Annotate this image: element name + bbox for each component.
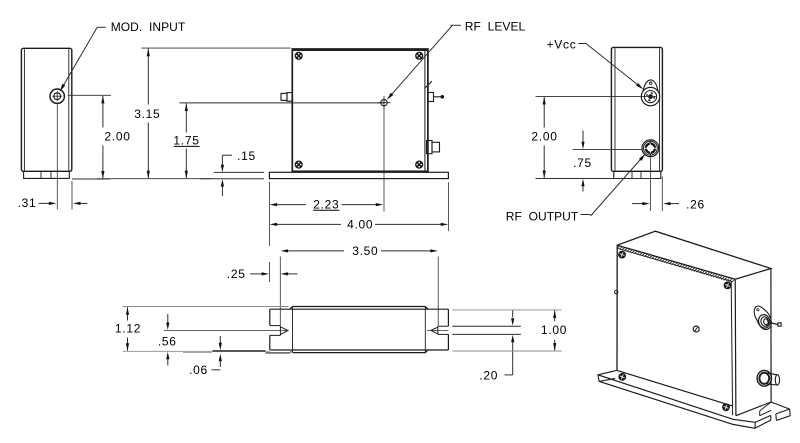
MOD. INPUT connector circle — [50, 89, 64, 103]
svg-text:.31: .31 — [18, 196, 37, 210]
svg-text:.20: .20 — [479, 369, 498, 383]
side view base foot — [614, 172, 661, 179]
bottom view base plate outline — [270, 309, 449, 350]
screw top-left front view — [295, 52, 302, 59]
MOD INPUT connector stub left of front view — [281, 93, 292, 102]
dimension .20 — [479, 310, 514, 383]
RF LEVEL leader — [387, 25, 461, 100]
svg-text:RF OUTPUT: RF OUTPUT — [506, 209, 579, 223]
isometric center hole — [693, 326, 699, 332]
dimension 1.00 extension lines — [452, 310, 561, 351]
svg-text:4.00: 4.00 — [347, 218, 373, 232]
Vcc feedthrough stub right of front view — [425, 81, 444, 101]
svg-text:1.00: 1.00 — [541, 323, 567, 337]
pot extension line down — [383, 109, 385, 211]
svg-text:.25: .25 — [227, 267, 246, 281]
left side view body — [21, 48, 71, 171]
screw bottom-left front view — [295, 161, 302, 168]
dimension 2.00 left view — [68, 95, 131, 179]
dimension .31 — [18, 196, 88, 210]
svg-text:.56: .56 — [158, 334, 177, 348]
RF output connector stub right of front view — [427, 141, 440, 154]
svg-text:.06: .06 — [189, 363, 208, 377]
dimension .56 — [158, 314, 177, 366]
isometric base plate — [598, 370, 755, 428]
svg-text:2.23: 2.23 — [313, 197, 339, 211]
svg-text:1.75: 1.75 — [173, 133, 199, 147]
RF OUTPUT connector side view — [642, 140, 659, 157]
dimension 1.75 underlined — [173, 103, 384, 178]
extension line right edge left view — [71, 181, 73, 210]
dimension .26 — [632, 198, 705, 212]
dimension 2.23 underlined — [270, 197, 384, 211]
+Vcc label — [547, 37, 577, 51]
isometric right face and edges — [617, 269, 771, 416]
dimension 2.00 side view — [531, 97, 557, 178]
left view base foot — [24, 171, 70, 178]
screw bottom-right front view — [416, 161, 423, 168]
+Vcc leader — [579, 44, 644, 90]
centerline below MOD INPUT connector — [56, 104, 58, 210]
isometric base plate right tab with notch — [755, 402, 790, 428]
dimension 3.50 — [281, 244, 438, 258]
dimension 3.15 — [97, 48, 291, 179]
isometric +Vcc connector — [754, 306, 781, 330]
left mounting slot — [164, 326, 289, 336]
svg-text:3.15: 3.15 — [134, 107, 160, 121]
dimension .15 plate thickness — [200, 149, 264, 196]
dimension .25 — [227, 267, 298, 281]
svg-text:2.00: 2.00 — [531, 130, 557, 144]
dimension 4.00 — [270, 218, 449, 232]
isometric box top face — [617, 231, 771, 370]
RF LEVEL potentiometer — [378, 96, 391, 109]
isometric RF output connector — [757, 370, 779, 386]
svg-text:+Vcc: +Vcc — [547, 37, 577, 51]
svg-text:2.00: 2.00 — [104, 130, 130, 144]
dimension 1.00 — [541, 311, 567, 351]
RF OUTPUT leader — [581, 154, 646, 216]
isometric lid seam hatch band — [617, 246, 734, 283]
dimension .75 side view — [573, 131, 592, 192]
right edge extension down — [661, 177, 663, 212]
MOD. INPUT leader line — [60, 27, 106, 91]
right mounting slot — [427, 326, 448, 334]
dimension .20 extension lines — [452, 326, 521, 334]
right side view body — [611, 47, 662, 171]
svg-text:.26: .26 — [686, 198, 705, 212]
svg-text:.15: .15 — [237, 149, 256, 163]
screw top-right front view — [416, 52, 423, 59]
dimension .06 reference lines — [183, 351, 291, 353]
RF output centerline down — [650, 158, 652, 212]
+Vcc feedthrough teardrop connector — [641, 80, 659, 106]
svg-text:.75: .75 — [573, 156, 592, 170]
front view box — [292, 49, 428, 171]
extension lines below front plate — [269, 182, 448, 282]
front view base plate — [269, 172, 448, 178]
isometric screws front face — [619, 251, 626, 258]
svg-text:RF LEVEL: RF LEVEL — [465, 19, 526, 33]
svg-text:1.12: 1.12 — [115, 322, 141, 336]
dimension 1.12 — [115, 307, 289, 352]
RF LEVEL label — [465, 19, 526, 33]
dimension 3.50 extension lines — [280, 257, 438, 326]
dimension .06 — [189, 336, 222, 377]
MOD. INPUT label — [111, 20, 186, 34]
isometric small hole left edge — [615, 291, 618, 294]
side view dimension extension lines — [536, 96, 657, 178]
svg-text:MOD. INPUT: MOD. INPUT — [111, 20, 186, 34]
bottom view module body outline — [290, 307, 428, 353]
svg-text:3.50: 3.50 — [352, 244, 378, 258]
RF OUTPUT label — [506, 209, 579, 223]
